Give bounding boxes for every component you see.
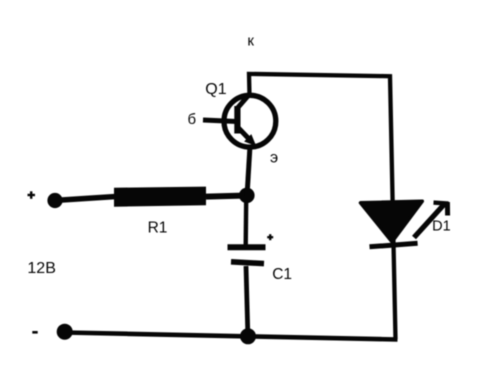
svg-text:D1: D1 [432,219,451,235]
wire [54,197,116,201]
wire [243,190,248,246]
node junction (emitter/R1/C1) [239,188,255,204]
wire collector to top and right rail down to LED [249,74,396,339]
capacitor C1 [228,247,266,263]
+ symbol battery [28,191,36,199]
node - terminal (negative) [57,324,73,340]
svg-text:к: к [247,32,254,49]
svg-text:э: э [270,150,278,167]
svg-text:б: б [188,111,197,128]
wire [246,266,248,333]
svg-text:Q1: Q1 [205,81,226,98]
svg-text:12В: 12В [27,260,55,277]
- symbol battery [32,331,37,334]
svg-text:R1: R1 [148,219,168,236]
transistor Q1 [203,93,276,196]
LED D1 [361,201,449,247]
svg-text:C1: C1 [272,266,292,283]
resistor R1 [114,187,206,207]
+ symbol capacitor polarity [267,234,273,240]
wire [206,196,247,197]
node junction (bottom) [240,328,256,344]
wire [65,333,398,340]
node + terminal (positive) [47,193,62,208]
